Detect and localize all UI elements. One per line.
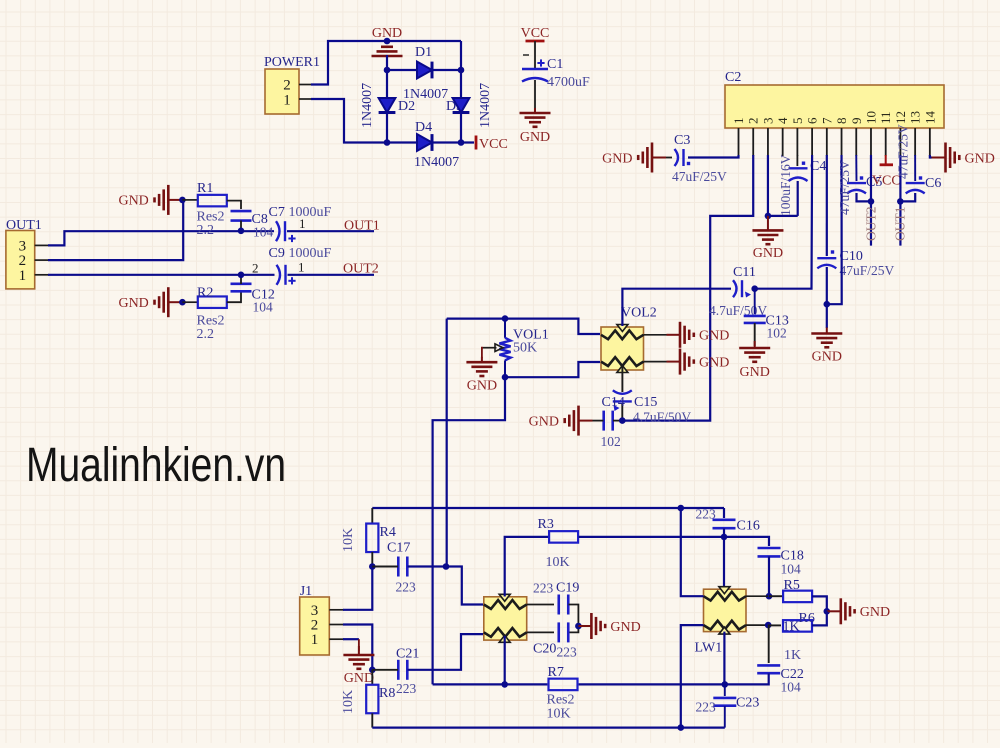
wire POWER1.1 to bridge bottom rail bbox=[311, 99, 419, 143]
wire C16 bottom bbox=[723, 528, 725, 537]
svg-text:C20: C20 bbox=[533, 642, 556, 657]
svg-text:GND: GND bbox=[467, 379, 497, 394]
svg-text:GND: GND bbox=[610, 620, 640, 635]
wire R5 right bbox=[812, 596, 827, 611]
VOL2 zigzag bottom bbox=[601, 357, 644, 366]
wire J1.2 down bbox=[343, 625, 372, 670]
svg-text:1N4007: 1N4007 bbox=[360, 83, 375, 128]
junction C21 J1 bbox=[369, 667, 376, 674]
VOL2 right lead bottom bbox=[644, 361, 667, 363]
svg-text:OUT2: OUT2 bbox=[864, 207, 879, 242]
junction R6 C22 bbox=[765, 622, 772, 629]
capacitor C8 bbox=[231, 211, 252, 221]
power VCC bridge bbox=[475, 136, 478, 150]
wire R4 top line bbox=[372, 507, 724, 509]
svg-text:9: 9 bbox=[849, 118, 864, 125]
junction P2 R7 line bbox=[501, 681, 508, 688]
resistor R5 bbox=[769, 595, 783, 597]
svg-text:R3: R3 bbox=[538, 517, 554, 532]
svg-text:R8: R8 bbox=[379, 686, 395, 701]
OUT1 pin2 stub bbox=[35, 259, 50, 261]
wire P2 bottom wiper bbox=[504, 636, 506, 685]
wire C3 to GND bbox=[666, 157, 672, 159]
wire VCC to C1 bbox=[534, 41, 536, 69]
OUT1 pin3 stub bbox=[35, 244, 50, 246]
capacitor C18 bbox=[758, 548, 781, 556]
LW1 left lead bottom bbox=[681, 625, 704, 728]
svg-text:R5: R5 bbox=[784, 578, 800, 593]
svg-text:2: 2 bbox=[283, 78, 291, 94]
svg-text:223: 223 bbox=[696, 507, 717, 522]
junction R4 C17 bbox=[369, 563, 376, 570]
svg-text:R6: R6 bbox=[799, 611, 815, 626]
svg-text:GND: GND bbox=[602, 151, 632, 166]
wire C2.12 OUT1 bbox=[899, 155, 901, 246]
svg-text:GND: GND bbox=[965, 151, 995, 166]
svg-text:3: 3 bbox=[19, 238, 27, 254]
wire C2.7 to C10 bbox=[826, 155, 828, 256]
ground GND VOL1 bbox=[466, 357, 497, 376]
resistor R3 bbox=[549, 531, 578, 543]
svg-text:GND: GND bbox=[529, 414, 559, 429]
svg-text:1K: 1K bbox=[784, 648, 801, 663]
svg-text:4700uF: 4700uF bbox=[547, 75, 590, 90]
svg-text:C9: C9 bbox=[269, 246, 285, 261]
svg-text:R7: R7 bbox=[548, 665, 564, 680]
diode D2 bbox=[379, 98, 396, 113]
svg-text:C1: C1 bbox=[547, 57, 563, 72]
wire OUT2 net bbox=[288, 274, 375, 276]
wire C23 top bbox=[724, 684, 726, 696]
svg-text:223: 223 bbox=[533, 581, 554, 596]
svg-text:C23: C23 bbox=[736, 696, 759, 711]
svg-text:C3: C3 bbox=[674, 133, 690, 148]
wire D4 cathode to VCC bbox=[431, 141, 474, 143]
svg-text:10K: 10K bbox=[341, 690, 356, 714]
junction OUT2 net bbox=[868, 198, 875, 205]
junction R2 GND bbox=[179, 299, 186, 306]
svg-text:GND: GND bbox=[520, 130, 550, 145]
junction OUT1 net bbox=[897, 198, 904, 205]
svg-text:C6: C6 bbox=[925, 176, 941, 191]
connector J1 bbox=[300, 597, 330, 655]
capacitor C3 bbox=[675, 149, 684, 166]
svg-text:C14: C14 bbox=[602, 395, 625, 410]
wire D1 cathode bbox=[431, 69, 461, 71]
junction D4 cathode bbox=[458, 139, 465, 146]
svg-text:1: 1 bbox=[283, 93, 291, 109]
diode D3 bbox=[453, 98, 470, 113]
wire J1.1 to GND bbox=[343, 638, 359, 640]
wire C2.10 OUT2 bbox=[870, 155, 872, 246]
LW1 left lead top bbox=[681, 508, 704, 596]
svg-text:D2: D2 bbox=[398, 99, 415, 114]
svg-text:104: 104 bbox=[781, 680, 802, 695]
svg-text:3: 3 bbox=[311, 603, 319, 619]
svg-text:C10: C10 bbox=[840, 249, 863, 264]
wire J1.3 up bbox=[343, 567, 372, 610]
junction C10 pin8 bbox=[824, 301, 831, 308]
svg-text:GND: GND bbox=[344, 671, 374, 686]
wire P2 wiper to R3 bbox=[505, 537, 549, 597]
svg-text:223: 223 bbox=[396, 580, 417, 595]
ground GND R2 bbox=[155, 287, 183, 317]
wire C1 to GND bbox=[534, 80, 536, 113]
resistor R2 bbox=[182, 301, 197, 303]
wire C14 right bbox=[613, 420, 623, 422]
ground GND C2.3 bbox=[752, 216, 783, 244]
svg-text:GND: GND bbox=[118, 296, 148, 311]
svg-text:8: 8 bbox=[834, 118, 849, 125]
svg-text:2: 2 bbox=[746, 118, 761, 125]
svg-text:C16: C16 bbox=[737, 519, 760, 534]
resistor R4 bbox=[371, 508, 373, 524]
svg-text:1N4007: 1N4007 bbox=[478, 83, 493, 128]
ground GND bridge bbox=[372, 42, 403, 70]
wire VOL1 bottom route bbox=[433, 377, 505, 684]
capacitor C19 bbox=[559, 595, 569, 615]
capacitor C4 bbox=[789, 168, 808, 181]
LW1 right lead bottom bbox=[746, 624, 768, 626]
wire VOL1 top line bbox=[447, 319, 600, 334]
connector C2 bbox=[725, 85, 944, 128]
wire C22 bottom bbox=[725, 673, 769, 684]
wire C2.2 route bbox=[623, 155, 753, 421]
svg-text:OUT1: OUT1 bbox=[893, 207, 908, 242]
junction C18 R5 bbox=[766, 593, 773, 600]
ground GND C10 bbox=[811, 328, 842, 348]
svg-text:C11: C11 bbox=[733, 265, 756, 280]
svg-text:1: 1 bbox=[311, 632, 319, 648]
wire D3 bottom lead bbox=[460, 113, 462, 143]
svg-text:14: 14 bbox=[922, 111, 937, 125]
junction C17 col bbox=[443, 563, 450, 570]
OUT1 pin1 stub bbox=[35, 274, 50, 276]
svg-text:1000uF: 1000uF bbox=[289, 205, 332, 220]
svg-text:223: 223 bbox=[557, 645, 578, 660]
svg-text:102: 102 bbox=[601, 434, 621, 449]
wire C2.13 to C6 bbox=[914, 155, 916, 181]
C2 pin numbers 1-14 bbox=[731, 111, 937, 125]
svg-text:1: 1 bbox=[731, 118, 746, 125]
junction top rail GND bbox=[384, 38, 391, 45]
wire C2.11 to VCC bbox=[885, 155, 887, 165]
capacitor C12 bbox=[231, 284, 252, 292]
junction R5 R6 GND bbox=[824, 608, 831, 615]
wire D2 leads bbox=[386, 70, 388, 98]
svg-text:POWER1: POWER1 bbox=[264, 55, 320, 70]
svg-text:10K: 10K bbox=[546, 555, 570, 570]
wire C8 down bbox=[240, 221, 242, 231]
svg-text:2.2: 2.2 bbox=[197, 327, 215, 342]
wire C17 line bbox=[372, 566, 398, 568]
junction R3 C16 bbox=[721, 534, 728, 541]
junction R4 line LW1 bbox=[678, 505, 685, 512]
resistor R7 bbox=[433, 683, 548, 685]
LW1 zigzag top bbox=[704, 592, 747, 601]
svg-text:104: 104 bbox=[781, 562, 802, 577]
wire OUT1.1 line bbox=[48, 274, 275, 276]
wire D3 top lead bbox=[460, 41, 462, 98]
capacitor C5 bbox=[847, 183, 866, 193]
capacitor C16 bbox=[713, 520, 736, 528]
VOL2 arrow bottom bbox=[617, 366, 628, 373]
svg-text:2.2: 2.2 bbox=[197, 223, 215, 238]
svg-text:47uF/25V: 47uF/25V bbox=[840, 263, 895, 278]
wire wiper to GND bbox=[482, 348, 483, 358]
svg-text:VCC: VCC bbox=[479, 137, 508, 152]
wire LW1 wiper top bbox=[723, 537, 725, 595]
ground GND J1 bbox=[343, 646, 374, 669]
junction D1 cathode bbox=[458, 67, 465, 74]
svg-text:104: 104 bbox=[253, 300, 274, 315]
svg-text:1N4007: 1N4007 bbox=[414, 155, 459, 170]
capacitor C1 bbox=[522, 69, 548, 82]
junction LW1 bottom rail bbox=[678, 724, 685, 731]
VOL1 wiper arrow bbox=[483, 347, 497, 349]
svg-text:11: 11 bbox=[878, 111, 893, 124]
wire VOL2 bottom to C15 bbox=[621, 366, 623, 392]
P2 zigzag bottom bbox=[484, 628, 527, 637]
wire GND junction to C4 bbox=[768, 215, 798, 217]
wire R3 right bbox=[579, 537, 769, 546]
capacitor C21 bbox=[398, 660, 407, 680]
svg-text:OUT1: OUT1 bbox=[344, 219, 380, 234]
svg-text:Res2: Res2 bbox=[547, 693, 575, 708]
wire C21 line bbox=[372, 669, 398, 671]
junction R1 GND bbox=[179, 197, 186, 204]
ground GND C2.14 bbox=[932, 143, 960, 173]
svg-text:47uF/25V: 47uF/25V bbox=[896, 124, 911, 179]
LW1 right lead top bbox=[746, 595, 768, 597]
junction C8 line bbox=[238, 228, 245, 235]
svg-text:J1: J1 bbox=[300, 584, 312, 599]
POWER1 pin 2 stub bbox=[299, 84, 313, 86]
svg-text:10: 10 bbox=[863, 111, 878, 124]
svg-text:2: 2 bbox=[311, 618, 319, 634]
svg-text:R4: R4 bbox=[380, 525, 396, 540]
LW1 arrow bottom bbox=[719, 627, 730, 634]
connector POWER1 bbox=[265, 69, 299, 114]
svg-text:1: 1 bbox=[299, 216, 306, 231]
capacitor C11 bbox=[733, 280, 742, 297]
svg-text:6: 6 bbox=[805, 117, 820, 124]
wire LW1 wiper bottom bbox=[723, 632, 725, 685]
wire C2.9 to C5 bbox=[855, 155, 857, 181]
power VCC C2.11 bbox=[880, 163, 893, 166]
svg-text:2: 2 bbox=[252, 261, 259, 276]
wire bottom rail bbox=[372, 726, 725, 728]
wire C2.14 to GND bbox=[930, 155, 932, 158]
J1 pin2 stub bbox=[329, 624, 344, 626]
wire POWER1.2 to bridge top rail bbox=[311, 41, 461, 85]
junction D1 anode bbox=[384, 67, 391, 74]
svg-text:GND: GND bbox=[699, 355, 729, 370]
svg-text:C2: C2 bbox=[725, 70, 741, 85]
P2 right lead top bbox=[527, 604, 554, 606]
diode D4 bbox=[417, 134, 432, 151]
wire C4 to GND rail bbox=[797, 181, 799, 216]
junction C2.3 GND bbox=[765, 213, 772, 220]
P2 arrow top bbox=[499, 594, 510, 601]
C2 pin stubs bbox=[739, 128, 930, 156]
LW1 zigzag bottom bbox=[704, 621, 747, 630]
resistor R1 bbox=[182, 199, 197, 201]
connector OUT1 bbox=[6, 231, 35, 289]
svg-text:13: 13 bbox=[908, 111, 923, 124]
wire VOL1 bottom line bbox=[505, 362, 600, 377]
wire VOL2 top to C11 bbox=[622, 289, 731, 326]
ground GND R1 bbox=[155, 185, 183, 215]
potentiometer VOL2 bbox=[601, 327, 644, 370]
VOL2 zigzag top bbox=[601, 330, 644, 339]
wire C14 to GND bbox=[593, 420, 604, 422]
resistor R8 bbox=[371, 670, 373, 685]
wire C10 to GND bbox=[826, 267, 828, 328]
svg-text:223: 223 bbox=[396, 681, 417, 696]
wire C2.8 route bbox=[827, 155, 842, 304]
capacitor C22 bbox=[768, 625, 770, 663]
svg-text:VCC: VCC bbox=[521, 26, 550, 41]
ground GND C14 bbox=[565, 406, 593, 436]
svg-text:223: 223 bbox=[696, 700, 717, 715]
wire C2.3 to GND junction bbox=[767, 155, 769, 216]
wire C12 up bbox=[240, 275, 242, 284]
wire C2.1 to C3 bbox=[688, 155, 739, 158]
ground GND VOL2 top bbox=[667, 322, 694, 348]
wire C18 bottom bbox=[768, 556, 770, 596]
junction LW1 R7 bbox=[722, 681, 729, 688]
junction C19 C20 GND bbox=[575, 623, 582, 630]
wire C5 to OUT2 net bbox=[857, 193, 872, 201]
svg-text:GND: GND bbox=[753, 246, 783, 261]
capacitor C13 bbox=[744, 316, 766, 323]
svg-text:GND: GND bbox=[740, 365, 770, 380]
diode D1 bbox=[417, 62, 432, 79]
wire C16 top bbox=[723, 508, 725, 518]
svg-text:GND: GND bbox=[118, 194, 148, 209]
svg-text:104: 104 bbox=[253, 225, 274, 240]
VOL2 right lead top bbox=[644, 334, 667, 336]
svg-text:47uF/25V: 47uF/25V bbox=[837, 160, 852, 215]
P2 zigzag top bbox=[484, 600, 527, 609]
svg-text:C17: C17 bbox=[387, 541, 410, 556]
svg-text:3: 3 bbox=[760, 118, 775, 125]
svg-text:10K: 10K bbox=[547, 707, 571, 722]
svg-text:D1: D1 bbox=[415, 45, 432, 60]
capacitor C15 bbox=[613, 390, 632, 401]
wire C13 to GND bbox=[754, 323, 756, 346]
svg-text:10K: 10K bbox=[341, 528, 356, 552]
svg-text:12: 12 bbox=[893, 111, 908, 124]
wire OUT1 net bbox=[287, 230, 374, 232]
svg-text:2: 2 bbox=[19, 253, 27, 269]
svg-text:5: 5 bbox=[790, 118, 805, 125]
capacitor C6 bbox=[906, 183, 925, 193]
wire OUT1.3 to top line bbox=[48, 231, 274, 245]
junction VOL1 top bbox=[502, 315, 509, 322]
svg-text:GND: GND bbox=[699, 329, 729, 344]
wire C13 top bbox=[754, 289, 756, 314]
P2 arrow bottom bbox=[499, 635, 510, 642]
svg-text:102: 102 bbox=[767, 326, 787, 341]
svg-text:R2: R2 bbox=[197, 286, 213, 301]
svg-text:Mualinhkien.vn: Mualinhkien.vn bbox=[26, 439, 286, 492]
svg-text:50K: 50K bbox=[513, 341, 537, 356]
wire C19 to GND col bbox=[569, 605, 579, 633]
svg-text:1: 1 bbox=[19, 268, 27, 284]
svg-text:C7: C7 bbox=[269, 205, 285, 220]
wire C23 bottom bbox=[724, 706, 726, 728]
wire R2 to C12 bbox=[227, 293, 241, 303]
potentiometer LW1 bbox=[704, 589, 747, 631]
junction C14 C15 bbox=[619, 417, 626, 424]
power VCC C1 bbox=[526, 40, 545, 43]
svg-text:7: 7 bbox=[819, 117, 834, 124]
wire C6 to OUT1 net bbox=[900, 193, 915, 201]
VOL2 arrow top bbox=[617, 325, 628, 332]
capacitor C17 bbox=[398, 557, 407, 577]
svg-text:OUT1: OUT1 bbox=[6, 218, 42, 233]
svg-text:D4: D4 bbox=[415, 120, 432, 135]
ground GND C19 bbox=[578, 613, 605, 639]
svg-text:OUT2: OUT2 bbox=[343, 262, 379, 277]
svg-text:VOL2: VOL2 bbox=[621, 306, 657, 321]
wire C2.5 to C4 bbox=[796, 155, 798, 166]
svg-text:47uF/25V: 47uF/25V bbox=[672, 169, 727, 184]
svg-text:GND: GND bbox=[812, 349, 842, 364]
resistor R6 bbox=[768, 624, 781, 626]
wire R6 right bbox=[812, 611, 827, 625]
pin mark bbox=[523, 54, 529, 56]
svg-text:C21: C21 bbox=[396, 647, 419, 662]
wire D1 anode rail bbox=[387, 55, 417, 70]
junction C11 C13 bbox=[751, 285, 758, 292]
wire C15 to junction bbox=[621, 403, 623, 421]
LW1 arrow top bbox=[719, 587, 730, 594]
svg-text:100uF/16V: 100uF/16V bbox=[778, 154, 793, 216]
junction VOL1 bottom bbox=[502, 374, 509, 381]
svg-text:1: 1 bbox=[298, 260, 305, 275]
svg-text:C19: C19 bbox=[556, 581, 579, 596]
ground GND R5R6 bbox=[827, 598, 855, 624]
svg-text:R1: R1 bbox=[197, 181, 213, 196]
J1 pin1 stub bbox=[329, 638, 344, 640]
ground GND C1 bbox=[520, 108, 551, 127]
potentiometer P2 bbox=[484, 597, 527, 640]
capacitor C23 bbox=[713, 698, 736, 706]
capacitor C7 bbox=[276, 221, 285, 241]
wire OUT1.2 up bbox=[48, 200, 183, 260]
capacitor C10 bbox=[817, 258, 836, 268]
capacitor C9 bbox=[277, 265, 286, 285]
ground GND C13 bbox=[739, 341, 770, 362]
svg-text:4.7uF/50V: 4.7uF/50V bbox=[633, 410, 691, 425]
capacitor C20 bbox=[559, 622, 569, 642]
junction C12 line bbox=[238, 272, 245, 279]
svg-text:LW1: LW1 bbox=[695, 641, 723, 656]
wire C2.6 route bbox=[756, 155, 812, 289]
svg-text:1K: 1K bbox=[783, 620, 800, 635]
potentiometer VOL1 bbox=[504, 319, 506, 338]
svg-text:1000uF: 1000uF bbox=[289, 246, 332, 261]
ground GND C3 bbox=[638, 143, 666, 173]
POWER1 pin 1 stub bbox=[299, 98, 313, 100]
svg-text:4: 4 bbox=[775, 117, 790, 124]
wire R1 to C8 bbox=[227, 201, 241, 209]
wire VOL1 top col bbox=[446, 319, 448, 567]
J1 pin3 stub bbox=[329, 609, 344, 611]
